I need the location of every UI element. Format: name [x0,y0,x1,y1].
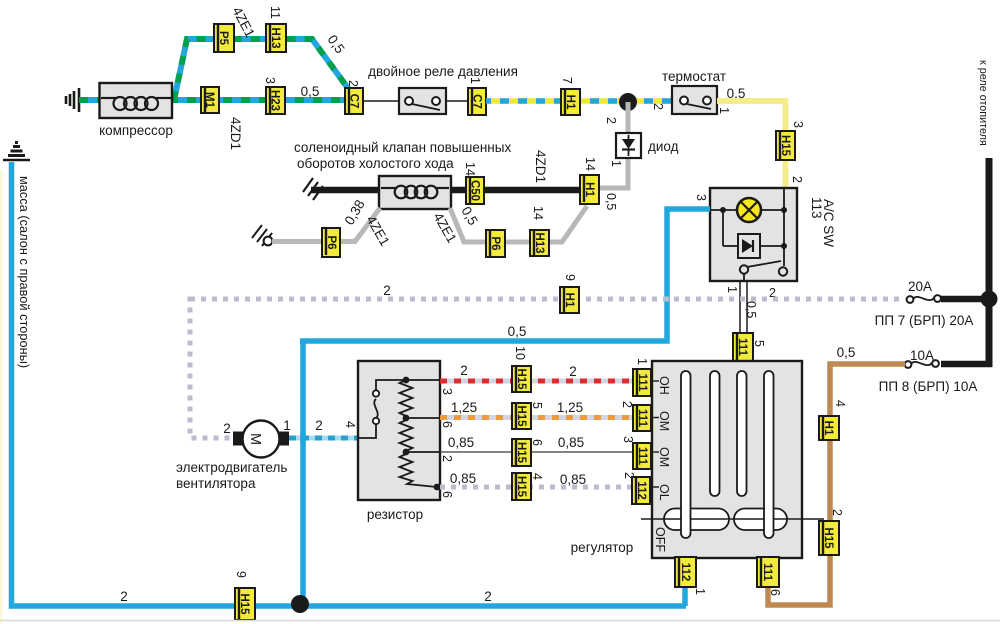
connector H15 (bottom cyan) [235,588,255,620]
wire: brown (111 pin6 - 10A fuse) [768,364,905,605]
svg-text:масса (салон с правой стороны): масса (салон с правой стороны) [17,176,32,368]
connector H15 (yellow wire) [776,131,795,160]
wire: grey (ground circle - P6 - solenoid) [272,208,380,242]
svg-text:6: 6 [768,589,782,596]
svg-text:0,85: 0,85 [450,471,476,486]
resistor zigzag 3 [400,452,438,487]
connector H1 (solenoid line) [580,175,599,204]
svg-text:1: 1 [283,418,291,433]
svg-text:14: 14 [531,206,545,220]
A/C SW lamp [737,198,761,222]
svg-text:ОМ: ОМ [657,447,671,467]
svg-text:H15: H15 [515,405,527,427]
svg-text:регулятор: регулятор [571,540,634,555]
svg-text:7: 7 [560,77,574,84]
svg-text:5: 5 [752,340,766,347]
wire: light blue dashed (motor - resistor) [289,436,358,441]
svg-text:2: 2 [440,455,454,462]
connector 112 (row4) [632,477,650,504]
svg-text:2: 2 [383,283,391,298]
wire: yellow (thermostat - H15 - A/C SW) [717,101,786,188]
svg-text:двойное реле давления: двойное реле давления [368,64,518,79]
svg-text:ПП 8 (БРП) 10А: ПП 8 (БРП) 10А [879,379,978,394]
svg-text:6: 6 [440,421,454,428]
svg-text:3: 3 [621,436,635,443]
svg-text:3: 3 [791,121,805,128]
svg-text:M1: M1 [203,92,215,109]
connector H15 (row1 red) [512,366,531,392]
connector H15 (row2 orange) [512,403,531,429]
OFF level line [641,518,824,520]
connector 111 (regulator top) [733,333,753,361]
resistor zigzag 2 [400,418,413,452]
wire: lavender dashed row (motor - 20A fuse) [190,297,903,302]
svg-text:H1: H1 [564,95,576,110]
fan motor terminals [233,432,245,446]
svg-text:диод: диод [648,139,679,154]
svg-text:1,25: 1,25 [451,400,477,415]
regulator slots [681,371,691,538]
svg-text:2: 2 [790,176,804,183]
svg-text:C7: C7 [471,94,483,109]
svg-text:H1: H1 [822,421,834,436]
wire: orange dashed row (resistor pin6 - regulator OM) [440,415,633,420]
svg-text:M: M [247,433,263,445]
diode [616,133,641,158]
junction dot [619,93,637,111]
svg-text:0,85: 0,85 [448,435,474,450]
svg-text:9: 9 [234,571,248,578]
svg-text:4: 4 [530,473,544,480]
connector M1 [201,87,219,113]
svg-text:10А: 10А [910,348,934,363]
svg-text:P6: P6 [325,235,337,249]
svg-text:C50: C50 [469,180,481,201]
connector H1 (lavender row) [560,287,579,313]
compressor box [100,83,173,118]
svg-text:2: 2 [604,117,618,124]
svg-text:A/C SW: A/C SW [821,199,836,247]
svg-text:111: 111 [736,338,748,357]
svg-text:2: 2 [120,589,128,604]
connector H1 (main line) [561,89,580,115]
svg-text:111: 111 [636,374,648,393]
wire: lavender vertical to motor [190,297,234,439]
svg-text:1: 1 [693,588,707,595]
svg-text:3: 3 [263,77,277,84]
svg-text:1,25: 1,25 [557,400,583,415]
junction dot (right bus) [981,291,998,308]
svg-text:14: 14 [583,157,597,171]
svg-text:вентилятора: вентилятора [176,476,256,491]
svg-text:1: 1 [468,77,482,84]
svg-text:электродвигатель: электродвигатель [176,460,287,475]
svg-text:6: 6 [440,491,454,498]
wire: cyan riser over blue crossing [300,433,306,443]
svg-text:2: 2 [569,364,577,379]
svg-text:1: 1 [725,286,739,293]
svg-text:ПП 7 (БРП) 20А: ПП 7 (БРП) 20А [875,313,974,328]
left page edge strip [0,170,3,624]
connector 111 (row2) [633,405,651,431]
svg-text:4: 4 [343,421,357,428]
A/C SW switch [740,261,787,276]
wire: yellow-cyan (C7 - H1 - junction - thermostat) [486,98,672,104]
solenoid valve box [379,176,451,209]
regulator box [652,361,802,558]
fuse 10A [905,360,939,368]
svg-text:2: 2 [346,80,360,87]
connector H15 (row3 grey) [512,439,531,466]
connector 111 (regulator bottom) [757,557,779,587]
svg-text:OFF: OFF [653,527,667,552]
svg-text:ОН: ОН [657,376,671,395]
svg-text:оборотов холостого хода: оборотов холостого хода [297,156,454,171]
svg-text:11: 11 [268,6,282,19]
connector H15 (brown wire) [819,521,839,555]
wire: thick black bus (to heater relay) [986,158,993,367]
svg-text:5: 5 [530,402,544,409]
svg-text:H15: H15 [822,527,834,549]
svg-text:1: 1 [609,160,623,167]
wire (C7 - pressure relay) [363,100,399,102]
svg-text:P5: P5 [217,31,229,46]
svg-text:4ZD1: 4ZD1 [228,117,243,150]
wire: lavender dashed row (resistor pin6 - regulator OL) [440,485,632,490]
ground (solenoid valve top) [303,178,323,200]
svg-text:P6: P6 [489,236,501,250]
svg-text:2: 2 [223,421,231,436]
junction dot (bottom cyan) [291,595,309,613]
connector C7 (pin 1) [468,88,486,115]
double pressure relay [399,88,446,114]
svg-text:2: 2 [830,509,844,516]
svg-text:H15: H15 [515,368,527,390]
connector C50 [466,177,484,204]
A/C SW pin wires down to 111 [739,281,741,333]
svg-text:к реле отопителя: к реле отопителя [977,60,989,146]
svg-text:1: 1 [635,358,649,365]
resistor internals: input + thermal fuse [359,380,440,452]
connector H13 (lower) [530,230,549,256]
svg-text:H1: H1 [563,293,575,308]
svg-text:H15: H15 [238,593,250,615]
svg-text:2: 2 [315,418,323,433]
connector P6 (left) [322,228,340,257]
ground (compressor, left) [66,88,79,112]
svg-text:112: 112 [635,481,647,500]
svg-text:111: 111 [636,409,648,428]
svg-text:14: 14 [463,162,477,176]
connector P6 (right) [486,230,505,257]
svg-text:0,5: 0,5 [837,345,856,360]
svg-text:2: 2 [620,401,634,408]
wire: grey (H1 - diode - junction) [599,102,628,188]
wire: thick black (10A fuse - bus) [941,361,992,368]
svg-text:10: 10 [513,346,527,360]
wire: teal main line (ground - compressor - M1 - H23 - C7) [79,97,346,103]
resistor junction dots [403,377,410,384]
svg-text:9: 9 [563,274,577,281]
connector P5 [214,24,234,52]
regulator ticks [652,381,659,487]
resistor box [358,361,440,500]
connector H1 (brown wire) [819,416,839,440]
connector C7 (pin 2) [345,88,363,114]
svg-text:H15: H15 [779,135,791,157]
svg-text:0,5: 0,5 [604,193,618,210]
svg-text:111: 111 [636,447,648,466]
A/C SW diode [738,234,760,258]
svg-text:4ZD1: 4ZD1 [533,150,548,183]
svg-text:20А: 20А [908,279,932,294]
svg-text:0,5: 0,5 [744,301,758,318]
svg-text:112: 112 [679,563,691,582]
svg-text:4: 4 [833,400,847,407]
svg-text:0,5: 0,5 [301,84,320,99]
wire: thick black (solenoid - C50 - H1) [451,187,580,194]
svg-text:2: 2 [460,363,468,378]
regulator pills (slider) [664,509,729,531]
fuse 20A [907,295,941,303]
svg-text:H15: H15 [515,476,527,498]
wire: thin grey row (resistor pin2 - regulator OM) [440,451,634,453]
svg-text:H13: H13 [269,27,281,48]
A/C SW junction dots [720,207,726,213]
fan motor M [243,421,280,458]
svg-text:ОМ: ОМ [657,411,671,431]
svg-text:компрессор: компрессор [99,123,173,138]
svg-text:1: 1 [717,107,731,114]
connector H15 (row4 lavender) [512,473,531,500]
connector 112 (regulator bottom) [675,557,696,587]
svg-text:H1: H1 [583,182,595,197]
svg-text:0,5: 0,5 [508,324,527,339]
wire: thick black (20A fuse - junction) [941,296,989,303]
wire: cyan ground bus (left vertical + bottom + risers) [12,162,711,606]
svg-text:термостат: термостат [662,69,726,84]
svg-text:H13: H13 [533,232,545,253]
connector H13 [266,24,286,52]
ground (масса, top-left) [3,143,30,161]
svg-text:H15: H15 [515,442,527,464]
svg-text:2: 2 [651,103,665,110]
svg-text:C7: C7 [348,94,360,109]
svg-text:соленоидный клапан повышенных: соленоидный клапан повышенных [294,140,511,155]
svg-text:ОL: ОL [657,484,671,501]
connector 111 (row1) [633,369,651,396]
A/C SW internal wires [711,189,784,281]
svg-text:3: 3 [694,194,708,201]
wire: grey (solenoid right - P6 - H13 - H1) [450,206,587,242]
svg-text:H23: H23 [269,90,281,111]
wire: red dashed row (resistor pin3 - regulator OH) [440,379,633,384]
lavender dash over cyan crossing [664,297,669,302]
connector H23 [266,87,285,114]
svg-text:резистор: резистор [367,507,423,522]
svg-text:3: 3 [440,388,454,395]
svg-text:0,85: 0,85 [558,435,584,450]
bottom page edge line [0,620,1000,622]
connector 111 (row3) [633,443,651,469]
resistor zigzag 1 [400,380,413,418]
wire: thick black (ground - solenoid valve) [311,187,379,194]
wire (pressure relay - C7) [446,100,469,102]
A/C switch box U113 [710,188,797,281]
thermostat box [672,86,717,114]
svg-text:111: 111 [761,563,773,582]
svg-text:2: 2 [484,589,492,604]
svg-text:0,85: 0,85 [560,472,586,487]
wire: teal upper branch (compressor - P5 - H13 - C7 pin2) [174,39,350,100]
ground (P6 branch, with circle) [252,225,272,246]
svg-text:6: 6 [530,439,544,446]
